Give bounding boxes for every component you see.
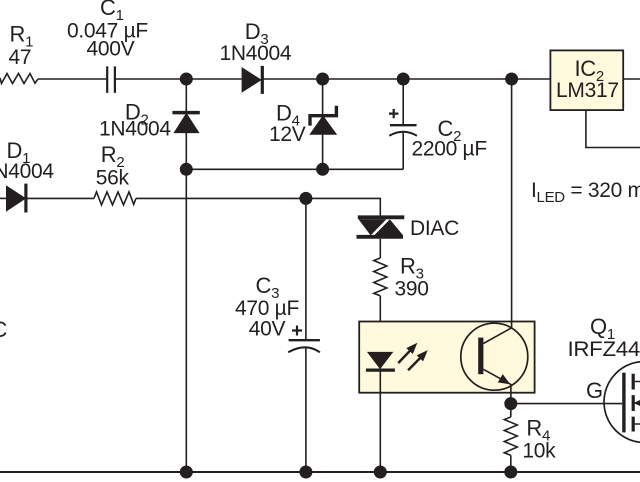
wire [623,78,640,80]
wire [38,78,107,80]
wire gate [511,403,622,405]
IC2 box [550,50,623,110]
wire [136,198,380,215]
light arrow 2 [408,351,427,370]
diode D2 [172,79,199,472]
svg-text:2200 µF: 2200 µF [412,138,487,161]
junction dot bottom x306 [299,466,312,479]
diode D3 [242,66,262,94]
svg-text:LM317: LM317 [556,79,619,102]
svg-text:DIAC: DIAC [410,217,459,240]
light arrow 1 [398,344,416,363]
junction dot top rail x322 [316,73,329,86]
svg-text:ILED = 320 mA: ILED = 320 mA [531,179,640,206]
optocoupler box IC1 [359,322,534,393]
resistor R1 [0,74,38,84]
zener diode D4 [310,79,336,169]
IC2 adj pin wire [586,110,640,147]
svg-text:40V: 40V [249,318,286,341]
svg-text:G: G [586,378,603,403]
junction dot top rail x186 [180,73,193,86]
svg-text:400V: 400V [87,37,135,60]
junction dot mid rail x322 [316,163,329,176]
svg-text:390: 390 [395,278,429,301]
junction dot top rail x511 [505,73,518,86]
wire [116,78,242,80]
diode D1 [0,184,94,213]
opto phototransistor [461,79,528,404]
svg-text:C: C [0,317,8,342]
svg-text:IRFZ44: IRFZ44 [568,338,640,361]
svg-text:12V: 12V [269,123,306,146]
junction dot bottom x186 [180,466,193,479]
svg-text:10k: 10k [522,440,556,463]
capacitor C2 [389,79,417,169]
svg-text:47: 47 [9,46,32,69]
wire [262,78,550,80]
junction dot bottom x510 [504,466,517,479]
junction dot R2 row x306 [299,192,312,205]
resistor R4 [504,404,517,472]
svg-text:1N4004: 1N4004 [220,42,292,65]
opto LED [366,352,395,472]
wire [379,296,381,354]
resistor R2 [94,192,136,205]
MOSFET Q1 [604,362,640,443]
capacitor C1 [107,66,115,93]
junction dot bottom x380 [374,466,387,479]
svg-text:1N4004: 1N4004 [0,160,54,183]
junction dot top rail x403 [397,73,410,86]
junction dot gate [504,397,517,410]
DIAC [357,217,405,258]
junction dot mid rail x186 [180,163,193,176]
wire bottom rail [0,471,640,473]
wire mid rail [186,168,403,170]
capacitor C3 [288,198,320,472]
svg-text:1N4004: 1N4004 [99,118,171,141]
svg-text:56k: 56k [96,166,130,189]
resistor R3 [374,258,387,296]
